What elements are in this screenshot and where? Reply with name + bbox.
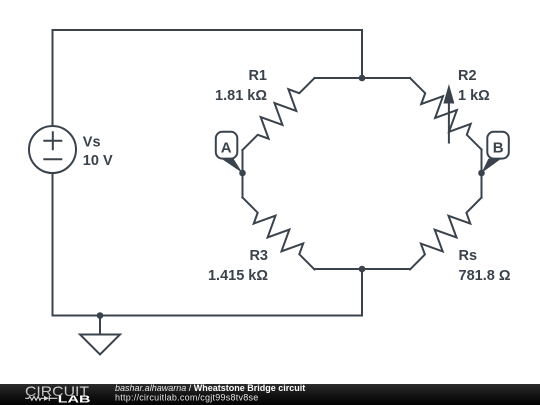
R2 wiper arrow shaft bbox=[448, 98, 450, 143]
wire node B vertical bbox=[481, 150, 483, 198]
node B leader bbox=[482, 159, 502, 173]
svg-text:A: A bbox=[221, 139, 232, 156]
svg-text:R3: R3 bbox=[249, 248, 268, 264]
footer bar bbox=[0, 384, 540, 405]
junction node ground bbox=[97, 312, 104, 319]
resistor R1 bbox=[243, 78, 315, 150]
node A flag bbox=[216, 132, 238, 159]
Vs minus sign bbox=[44, 158, 61, 160]
wire bottom rail of bridge bbox=[315, 268, 411, 270]
junction node B dot bbox=[478, 170, 485, 177]
wire top rail of bridge bbox=[315, 77, 411, 79]
ground stub wire bbox=[99, 316, 101, 335]
svg-text:Vs: Vs bbox=[83, 134, 101, 150]
junction node bottom bbox=[359, 266, 366, 273]
svg-text:1.415 kΩ: 1.415 kΩ bbox=[208, 268, 268, 284]
wire node A vertical bbox=[242, 150, 244, 198]
R2 wiper arrow head bbox=[443, 84, 454, 104]
wire top-left from source to top rail bbox=[53, 30, 363, 126]
resistor R2 (variable) bbox=[410, 78, 482, 150]
svg-text:1 kΩ: 1 kΩ bbox=[458, 88, 490, 104]
svg-text:R2: R2 bbox=[458, 68, 477, 84]
svg-text:781.8 Ω: 781.8 Ω bbox=[459, 268, 511, 284]
node A leader bbox=[221, 158, 243, 173]
svg-text:1.81 kΩ: 1.81 kΩ bbox=[215, 88, 267, 104]
node B flag bbox=[487, 132, 509, 159]
CircuitLab logo symbol bbox=[25, 396, 57, 401]
junction node top bbox=[359, 75, 366, 82]
ground symbol bbox=[80, 335, 120, 355]
Vs plus sign bbox=[44, 132, 61, 149]
svg-text:http://circuitlab.com/cgjt99s8: http://circuitlab.com/cgjt99s8tv8se bbox=[115, 392, 258, 402]
resistor Rs bbox=[410, 198, 482, 270]
resistor R3 bbox=[243, 198, 315, 270]
svg-text:Rs: Rs bbox=[459, 248, 478, 264]
voltage source Vs circle bbox=[29, 126, 76, 173]
svg-text:B: B bbox=[493, 139, 504, 156]
svg-text:LAB: LAB bbox=[58, 395, 91, 405]
junction node A dot bbox=[239, 170, 246, 177]
wire left-bottom from source down to bottom rail bbox=[53, 173, 363, 316]
svg-text:10 V: 10 V bbox=[83, 153, 113, 169]
svg-text:R1: R1 bbox=[248, 68, 267, 84]
